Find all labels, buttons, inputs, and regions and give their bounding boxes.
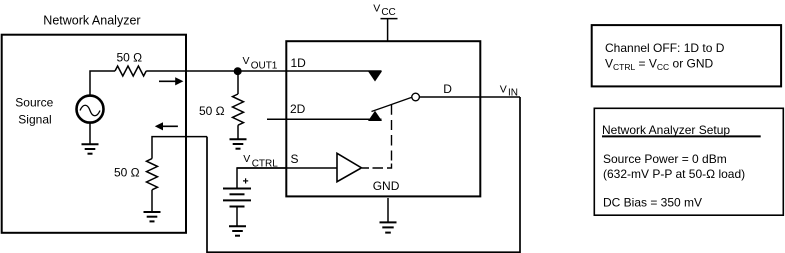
wire S to buffer bbox=[237, 167, 337, 169]
wire battery to ground bbox=[236, 207, 238, 227]
ground under source bbox=[82, 144, 99, 153]
wire R3 to ground bbox=[151, 190, 153, 212]
resistor R2 50 ohm (termination at VOUT1) bbox=[233, 94, 244, 125]
dashed control line bbox=[362, 105, 392, 168]
ground under battery bbox=[229, 226, 246, 235]
network analyzer box bbox=[2, 35, 186, 233]
pin 2D stub wire bbox=[267, 118, 382, 120]
svg-text:S: S bbox=[291, 152, 299, 166]
svg-text:GND: GND bbox=[373, 179, 400, 193]
source V1 sine generator bbox=[77, 96, 104, 123]
svg-text:Channel OFF: 1D to D: Channel OFF: 1D to D bbox=[605, 41, 725, 55]
wire GND pin to ground bbox=[387, 198, 389, 222]
svg-text:(632-mV P-P at 50-Ω load): (632-mV P-P at 50-Ω load) bbox=[603, 167, 745, 181]
note box: channel off bbox=[592, 25, 781, 86]
ground under R2 bbox=[230, 139, 247, 148]
switch device box U1 bbox=[286, 41, 480, 196]
wire return path from VIN down and across bottom bbox=[207, 97, 520, 252]
VCC power rail bbox=[373, 3, 397, 42]
svg-text:Network Analyzer Setup: Network Analyzer Setup bbox=[602, 123, 730, 137]
ground under R3 bbox=[144, 212, 161, 221]
node VOUT1 junction dot bbox=[234, 67, 242, 75]
svg-text:50 Ω: 50 Ω bbox=[199, 104, 225, 118]
contact 1D triangle bbox=[368, 71, 382, 81]
arrow right (signal direction) bbox=[159, 77, 183, 85]
resistor R1 50 ohm (series) bbox=[115, 66, 146, 76]
svg-text:1D: 1D bbox=[291, 56, 307, 70]
battery V2 plates bbox=[223, 189, 251, 207]
wire return branch bbox=[152, 137, 207, 159]
svg-text:DC Bias = 350 mV: DC Bias = 350 mV bbox=[603, 195, 702, 209]
svg-text:Source: Source bbox=[15, 96, 53, 110]
buffer driver U2 bbox=[337, 153, 362, 181]
resistor R3 50 ohm (receiver termination) bbox=[147, 159, 158, 190]
ground under device bbox=[380, 222, 397, 232]
svg-text:D: D bbox=[443, 82, 452, 96]
svg-text:2D: 2D bbox=[290, 102, 306, 116]
wire R1 to node VOUT1 and pin 1D bbox=[146, 70, 381, 72]
note title underline bbox=[602, 135, 761, 137]
wire S to battery bbox=[237, 168, 286, 189]
svg-text:Source Power = 0 dBm: Source Power = 0 dBm bbox=[603, 152, 727, 166]
note box: network analyzer setup bbox=[594, 108, 783, 215]
wire node to R2 bbox=[237, 72, 239, 94]
wire source to ground bbox=[89, 124, 91, 145]
wire R2 to ground bbox=[237, 125, 239, 139]
arrow left (return signal direction) bbox=[155, 122, 178, 130]
switch pivot circle bbox=[412, 93, 420, 101]
wire source to main line bbox=[90, 71, 115, 95]
contact 2D triangle bbox=[368, 111, 382, 121]
wire D to VIN bbox=[420, 96, 521, 98]
battery V2 plus sign bbox=[243, 178, 248, 183]
svg-text:50 Ω: 50 Ω bbox=[117, 50, 143, 64]
switch pole (lever) bbox=[372, 97, 412, 111]
svg-text:Network Analyzer: Network Analyzer bbox=[43, 13, 140, 27]
svg-text:Signal: Signal bbox=[18, 113, 51, 127]
svg-text:50 Ω: 50 Ω bbox=[114, 166, 140, 180]
